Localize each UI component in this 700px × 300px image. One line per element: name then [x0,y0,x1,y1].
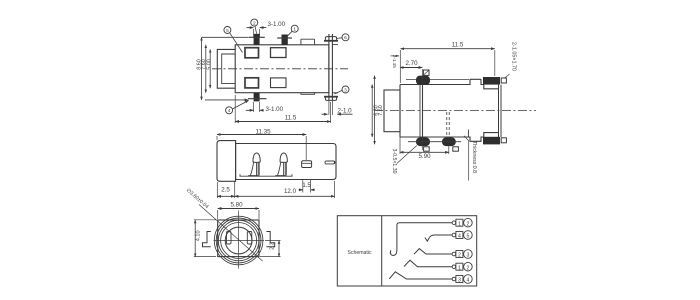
dims ext lines [217,181,334,198]
front circles [214,216,263,265]
dim 11.35 ext lines [217,136,306,160]
svg-text:2.5: 2.5 [221,187,230,194]
svg-text:2-1.15: 2-1.15 [392,55,397,68]
svg-text:7.60: 7.60 [378,105,384,116]
balloon 1 (top-right of pin2) [291,25,298,32]
dim 5.80 line [218,208,259,210]
window W3 [245,78,259,88]
window W1 [245,48,259,58]
svg-text:6: 6 [344,35,347,41]
left horizontal extension line top [202,36,249,38]
profile cap [217,141,236,182]
svg-text:4: 4 [466,278,469,284]
svg-text:3-1.00: 3-1.00 [268,21,286,28]
dim 2.3 ext lines [260,241,281,257]
terminal pin 1 (top) [254,34,260,45]
pad center line bottom [408,141,461,143]
left vertical dim line B [205,45,207,93]
row 5 terminal [452,277,456,281]
svg-text:∅3.60±0.04: ∅3.60±0.04 [185,187,210,210]
top-right pad foot [501,78,506,83]
spring 2 stem [284,163,287,176]
contact row 3 wire with peak [414,249,453,255]
profile inner floor [240,174,292,176]
hidden terminal dashed verticals [447,112,449,137]
bottom pad 2 foot [453,147,459,151]
svg-text:2-1.05×1.70: 2-1.05×1.70 [511,42,517,71]
dim 11.5 side ext lines [400,50,495,83]
svg-text:Schematic: Schematic [347,250,372,256]
schematic outer box [337,216,476,286]
top view bushing [217,49,235,88]
left vertical dim line C [209,49,211,88]
right slot [325,161,335,164]
svg-text:2: 2 [466,265,469,271]
svg-text:1: 1 [293,27,296,33]
svg-text:1: 1 [458,265,461,271]
svg-text:Thickness:0.8: Thickness:0.8 [471,141,477,173]
front crosshair [214,211,265,269]
front left tab [203,232,211,247]
front right tab [266,232,274,247]
small square on top of pad [423,70,429,75]
profile body [236,144,336,180]
right bottom tab stub [332,92,338,94]
right plate verticals [499,85,502,137]
pin4 crossbar [248,98,267,100]
spring 1 stem [257,163,260,176]
contact row 4 wire with peak [404,260,453,267]
top view bushing inner step [222,54,236,84]
bottom-right pad (bold) [483,137,500,145]
thickness leader [464,136,469,181]
top view main body [235,45,329,93]
svg-text:2: 2 [458,253,461,259]
internal vertical near bottom bump [467,130,469,138]
contact row 5 wire with peak [389,272,452,279]
top wide bump [301,39,315,45]
svg-text:2.3: 2.3 [270,242,276,250]
svg-text:4: 4 [228,108,231,114]
side view main body outline [400,79,499,141]
row 2 terminal [452,233,456,237]
bottom-right pad foot [501,138,506,143]
dim 3-1.00 bottom extension lines [254,102,260,112]
dim 2.70 ext line [421,69,423,150]
dims 2.5 / 12.0 line [217,195,234,197]
dim 2.70 line [400,67,422,69]
svg-text:11.5: 11.5 [452,41,464,48]
right plate vertical lines [329,34,333,101]
dim 3-1.00 top line [247,27,254,29]
contact row 2 wire with check [425,235,453,241]
right bottom tab outline [325,97,336,101]
terminal pin 2 (top) [282,35,288,45]
front body rect [218,220,259,257]
dim 1.5 arrows [299,189,303,191]
row 1 terminal [452,221,456,225]
dim 1.5 ext lines [303,180,311,193]
front inner contact left [227,232,232,245]
balloon 2 (top) [251,19,258,26]
svg-text:5: 5 [466,234,469,240]
dim 5.80 ext lines [218,210,259,219]
dim 3-1.00 bottom line [246,109,254,111]
top view centerline [212,68,348,70]
far-side pad silhouette line [406,79,469,81]
balloon 4 leader [232,101,248,110]
left vertical dim line A (outer) [201,37,203,100]
top-left pad (bold) [416,76,430,85]
svg-text:1.5: 1.5 [302,183,311,189]
balloon 1 leader [287,31,292,36]
dim 5.90 line [400,151,449,153]
terminal 1 vertical lines through body [420,85,423,137]
side left dim line B [374,76,376,145]
dim 5.90 ext lines [400,134,449,154]
dim 3-1.00 top extension lines [254,29,260,37]
spring 1 dome [253,153,260,162]
dim 4.10 ext lines [194,220,216,257]
row 3 terminal [452,252,456,256]
spring 1 foot [248,175,258,177]
bottom wide bump [301,93,315,95]
right top tab bold bar [324,40,338,42]
dim 11.5 extension lines [235,95,330,123]
spring 2 foot [275,175,285,177]
contact row 1 wire with hook [390,223,452,256]
svg-text:4.10: 4.10 [195,230,201,241]
front diagonal leader [199,205,263,262]
dim 4.10 line [194,220,196,257]
svg-text:2: 2 [253,20,256,26]
right bottom tab bold bar [324,96,338,98]
right top tab outline [325,37,336,41]
small pill feature [302,161,312,168]
spring 2 dome [280,153,287,162]
window W2 [271,48,287,58]
balloon 5 (top-left) [224,27,231,34]
dim 2-1.0 arrows [322,113,328,115]
side view bushing [384,90,400,132]
leader 3-0.5 [397,146,417,164]
dim 11.5 line [235,121,330,123]
svg-text:3: 3 [344,87,347,93]
schematic divider [381,216,383,286]
left horizontal extension line bottom (leader with arrow) [205,99,248,101]
svg-text:5.00: 5.00 [207,59,213,70]
svg-text:5.90: 5.90 [418,153,431,160]
bottom pad 1 foot [424,147,430,151]
2-1.15 underline leader [391,55,400,57]
svg-text:3-0.5×1.30: 3-0.5×1.30 [391,149,397,174]
svg-text:4: 4 [458,234,461,240]
side left dim line A [371,85,373,138]
svg-text:2-1.0: 2-1.0 [338,108,353,115]
svg-text:2: 2 [466,221,469,227]
dim 2.3 line [278,241,280,257]
svg-text:3: 3 [466,253,469,259]
pin2 crossbar [277,37,292,39]
bottom pad 1 (bold) [416,138,430,147]
svg-text:11.5: 11.5 [285,115,297,122]
bottom pad 2 (bold) [442,138,456,147]
window W4 [271,78,287,88]
top-right pad (bold) [483,77,500,85]
balloon 4 (bottom) [226,107,233,114]
right top tab stub [332,44,338,46]
svg-text:12.0: 12.0 [284,188,297,195]
dim 11.5 side line [401,48,495,50]
balloon 6 leader [337,37,342,40]
svg-text:5.80: 5.80 [230,202,243,209]
svg-text:3-1.00: 3-1.00 [266,106,284,113]
spring 1 arm [250,163,253,176]
balloon 5 leader [230,33,243,53]
terminal pin 4 (bottom) [254,93,260,102]
dim 11.35 line [217,134,306,136]
svg-text:5: 5 [226,28,229,34]
pin1 crossbar [249,36,265,38]
balloon 3 leader [335,90,343,94]
svg-text:2.70: 2.70 [405,60,418,67]
svg-text:3: 3 [458,278,461,284]
dim 2-1.0 plate extension lines [329,101,333,115]
row 4 terminal [452,265,456,269]
spring 2 arm [278,163,281,176]
balloon 2 leader [255,26,257,33]
balloon 3 (right-bottom) [342,86,349,93]
svg-text:1: 1 [458,221,461,227]
side view centerline [374,110,536,112]
balloon 6 (right-top) [342,34,349,41]
front inner contact right [247,232,252,245]
